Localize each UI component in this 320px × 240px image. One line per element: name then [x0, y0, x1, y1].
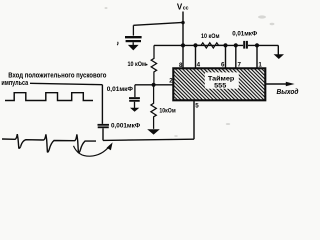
svg-text:импульса: импульса [1, 80, 28, 87]
node junction Vcc/top-cap [181, 21, 184, 24]
svg-text:0,01мкФ: 0,01мкФ [107, 86, 133, 93]
wire bottom (C4 to pin5) [103, 139, 194, 140]
wire top bus [154, 44, 243, 46]
svg-text:Вход положительного пускового: Вход положительного пускового [8, 73, 106, 80]
capacitor C2 0,01 mkF (series on bus) [243, 41, 245, 49]
svg-text:2: 2 [169, 78, 173, 85]
svg-text:555: 555 [214, 82, 226, 89]
capacitor C1 (bypass, top left) [125, 25, 142, 45]
capacitor C3 0,01 mkF (to ground from pin2 wire) [134, 85, 136, 97]
wire input lead [30, 83, 102, 84]
wire pin 2 (left of box) [135, 84, 173, 86]
wire pin 8 riser [182, 45, 184, 67]
waveform trigger spikes [2, 134, 96, 153]
annotation arc arrow [74, 146, 111, 157]
svg-text:0,01мкФ: 0,01мкФ [232, 30, 257, 37]
output arrowhead [286, 82, 295, 86]
resistor R2 10 kOm (lower vertical) [151, 85, 156, 129]
svg-text:10 кОм: 10 кОм [201, 33, 220, 40]
op-amp U1 555 timer box [173, 68, 265, 100]
ground for C1 [128, 45, 139, 51]
node pin8 junction [181, 43, 185, 47]
node pin6 junction [223, 43, 227, 47]
wire pin 1 riser [256, 45, 258, 67]
capacitor C4 0,001 mkF (series input) [98, 124, 110, 126]
node pin1 junction [255, 43, 259, 47]
svg-text:0,001мкФ: 0,001мкФ [111, 122, 140, 129]
svg-text:5: 5 [195, 103, 199, 110]
ground for R2 [147, 129, 160, 134]
wire top capacitor feed [133, 22, 183, 25]
wire Vcc riser [182, 12, 184, 46]
svg-text:10 кОм: 10 кОм [128, 61, 147, 68]
svg-text:cc: cc [183, 6, 189, 12]
node junction R1/R2/pin2 [152, 83, 156, 87]
resistor R1 10 kOm (upper vertical) [151, 45, 156, 84]
wire pin 5 riser [193, 101, 195, 139]
wire output pin 3 [266, 83, 287, 85]
node Vcc label [177, 3, 189, 12]
node pin4 junction [193, 43, 197, 47]
svg-text:Выход: Выход [277, 88, 300, 96]
wire input down to C4 [101, 85, 103, 124]
node pin7 junction [234, 43, 238, 47]
speck near C1 [116, 42, 119, 45]
wire pin 7 riser [235, 45, 237, 67]
resistor R3 10 kOm (horizontal on bus) [196, 43, 226, 48]
svg-text:10кОм: 10кОм [159, 107, 175, 114]
label plate Таймер 555 [205, 72, 239, 88]
ground right [274, 54, 284, 59]
ground for C3 [130, 108, 139, 112]
wire pin 4 riser [195, 45, 197, 67]
wire pin 6 riser [225, 45, 227, 67]
speck near R1 [146, 64, 148, 66]
waveform input square pulses [5, 93, 93, 101]
wire bus right end down [277, 45, 279, 54]
